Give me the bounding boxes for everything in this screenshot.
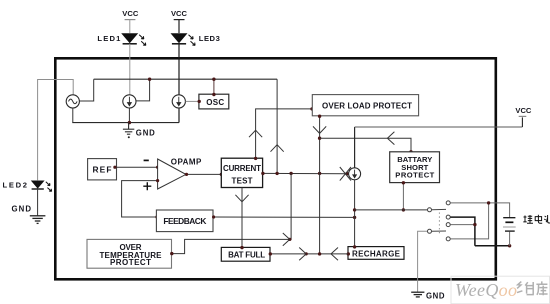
svg-text:VCC: VCC xyxy=(515,106,532,115)
junction (171.8,253.6) xyxy=(170,252,173,255)
wire osc circle to gnd bus xyxy=(72,108,74,122)
junction (289.8,239.4) xyxy=(288,238,291,241)
wire CT down to BAT FULL xyxy=(241,188,243,248)
junction (474.9,224.6) xyxy=(473,223,476,226)
junction (403.4,209.9) xyxy=(402,208,405,211)
junction (114.9,167.2) xyxy=(113,166,116,169)
junction (255.6,158.4) xyxy=(254,157,257,160)
wire opamp output xyxy=(186,173,221,175)
arrow left on BSP wire xyxy=(387,132,394,145)
arrow up on rail drop xyxy=(271,145,284,152)
switch linkage (dashed) xyxy=(438,213,440,235)
switch pole2 blade xyxy=(432,230,446,232)
block RECHARGE xyxy=(348,247,404,260)
junction (312,108.9) xyxy=(310,107,313,110)
junction (221.3,174.4) xyxy=(220,173,223,176)
wire contact C join xyxy=(450,224,475,226)
arrow right on OTP wire xyxy=(283,233,290,246)
junction (347,173.7) xyxy=(345,172,348,175)
wire feedback to opamp + input xyxy=(122,181,158,217)
wire LED2 cathode to ground xyxy=(37,189,39,215)
svg-text:LED1: LED1 xyxy=(97,34,121,43)
wire I1 to gnd bus xyxy=(128,108,130,122)
block OVER TEMPERATURE PROTECT xyxy=(87,239,172,268)
junction (157.6,180.6) xyxy=(156,179,159,182)
svg-text:PROTECT: PROTECT xyxy=(395,171,434,180)
junction (306.2,253.9) xyxy=(305,252,308,255)
svg-text:GND: GND xyxy=(426,291,445,300)
wire battery - (bold) xyxy=(475,245,510,247)
ground (internal) xyxy=(123,123,134,135)
block BATTARY SHORT PROTECT xyxy=(390,152,440,183)
power VCC (LED3 supply) xyxy=(171,9,188,33)
svg-text:OSC: OSC xyxy=(206,98,224,107)
junction (354.6,217.4) xyxy=(353,216,356,219)
wire BAT FULL to RECHARGE xyxy=(270,253,348,255)
wire CT output to charge source xyxy=(263,172,347,174)
junction (262.9,173.4) xyxy=(261,172,264,175)
junction (270.3,253.9) xyxy=(269,252,272,255)
ground (charger) xyxy=(411,291,445,300)
block OVER LOAD PROTECT xyxy=(312,95,418,116)
charge current source xyxy=(349,168,361,180)
junction (242,247.6) xyxy=(240,246,243,249)
label 锂电池 xyxy=(523,215,550,224)
block OSC xyxy=(199,94,229,109)
junction OSC top xyxy=(212,93,215,96)
wire node to battary short protect xyxy=(320,138,411,152)
svg-text:OVER LOAD PROTECT: OVER LOAD PROTECT xyxy=(322,102,412,111)
svg-text:OPAMP: OPAMP xyxy=(171,158,202,167)
block FEEDBACK xyxy=(156,210,213,232)
junction (319.6,138.2) xyxy=(318,137,321,140)
ground (LED2) xyxy=(30,216,46,224)
svg-text:GND: GND xyxy=(12,205,32,214)
wire feedback right to recharge node xyxy=(213,216,355,218)
switch pole1 contact xyxy=(428,208,432,212)
svg-text:VCC: VCC xyxy=(122,9,139,18)
wire LED2 anode up into chip xyxy=(38,80,74,181)
svg-text:CURRENT: CURRENT xyxy=(223,164,261,173)
arrow down below CT xyxy=(235,195,248,202)
arrow down below OLP xyxy=(313,126,326,133)
junction (186.5,174.4) xyxy=(185,173,188,176)
block BAT FULL xyxy=(221,247,270,261)
wire contact A to battery + xyxy=(450,203,509,217)
svg-text:PROTECT: PROTECT xyxy=(110,258,151,267)
wire BSP bottom to switch line xyxy=(402,183,404,210)
svg-text:TEST: TEST xyxy=(232,176,253,185)
junction rail/OSC xyxy=(212,78,215,81)
LED D2 xyxy=(31,181,52,192)
wire contact B (bold) xyxy=(450,217,475,246)
junction (509.6,245.8) xyxy=(508,244,511,247)
power VCC (right) xyxy=(515,106,532,117)
svg-text:LED3: LED3 xyxy=(199,34,220,43)
wire top rail xyxy=(94,78,277,80)
wire OTP to CT output node xyxy=(172,173,292,253)
junction (319.6,173.4) xyxy=(318,172,321,175)
current source I2 (LED3) xyxy=(172,95,185,108)
junction (411,151.8) xyxy=(409,150,412,153)
junction (488.6,202.9) xyxy=(487,201,490,204)
wire charge source to VCC line xyxy=(354,127,356,168)
block CURRENT TEST xyxy=(221,158,262,187)
IC main block outline xyxy=(55,58,496,279)
current source I1 (LED1) xyxy=(123,95,136,108)
switch pole2 contact xyxy=(428,229,432,233)
arrow up on CT-OLP wire xyxy=(249,130,262,137)
junction (157.6,167.2) xyxy=(156,166,159,169)
arrow right on BF-RECHARGE wire xyxy=(299,248,306,261)
wire LED3 to current source xyxy=(178,44,180,95)
op-amp U1 xyxy=(143,159,186,190)
switch pole1 blade xyxy=(432,208,446,210)
wire switch pole1 xyxy=(355,209,428,211)
junction (354.6,246.9) xyxy=(353,245,356,248)
junction OSC left pin xyxy=(198,100,201,103)
svg-text:GND: GND xyxy=(136,129,155,138)
wire contact D up to battery + wire xyxy=(450,203,488,239)
switch pole2 wire to gnd xyxy=(418,231,428,291)
wire rail down to CT output node xyxy=(276,79,278,173)
junction (319.6,116.2) xyxy=(318,115,321,118)
junction (156.9,217) xyxy=(155,215,158,218)
wire OLP bottom down xyxy=(319,116,321,254)
junction (291.1,173.4) xyxy=(289,172,292,175)
arrow left toward node on BF-RECHARGE wire xyxy=(331,248,338,261)
svg-text:RECHARGE: RECHARGE xyxy=(352,249,401,258)
wire charge source to recharge/battery node xyxy=(354,180,356,247)
watermark xyxy=(451,276,550,304)
junction (277.1,173.4) xyxy=(275,172,278,175)
junction rail/I1 xyxy=(148,78,151,81)
svg-text:BAT FULL: BAT FULL xyxy=(228,251,265,260)
svg-text:LED2: LED2 xyxy=(3,180,28,189)
svg-text:REF: REF xyxy=(93,165,112,175)
wire CT top to over load protect xyxy=(256,109,313,158)
switch throw contacts xyxy=(446,201,450,205)
junction (403.4,182.8) xyxy=(402,181,405,184)
wire VCC feed xyxy=(355,126,523,128)
svg-text:VCC: VCC xyxy=(171,9,188,18)
LED D1 xyxy=(121,33,146,45)
junction (348.3,253.9) xyxy=(347,252,350,255)
junction (213.6,217) xyxy=(212,215,215,218)
junction (354.6,209.9) xyxy=(353,208,356,211)
wire gnd bus xyxy=(72,122,179,124)
wire I1 to rail xyxy=(136,79,150,101)
battery cell xyxy=(503,218,516,246)
power VCC (LED1 supply) xyxy=(122,9,139,33)
wire LED1 to current source xyxy=(129,44,131,95)
LED D3 xyxy=(171,33,196,45)
junction bus xyxy=(128,121,131,124)
X mark at charge source input xyxy=(340,167,351,181)
svg-text:WeeQoo: WeeQoo xyxy=(455,280,517,300)
wire REF to opamp inverting input xyxy=(117,166,158,168)
wire rail to OSC top xyxy=(213,79,215,94)
block REF xyxy=(88,159,117,180)
wire osc to rail xyxy=(80,79,94,101)
svg-text:FEEDBACK: FEEDBACK xyxy=(163,216,206,226)
oscillator source circle xyxy=(66,95,79,108)
junction (319.6,253.9) xyxy=(318,252,321,255)
wire current source 3 to gnd bus xyxy=(178,108,180,123)
wire I2 to OSC xyxy=(186,100,199,102)
